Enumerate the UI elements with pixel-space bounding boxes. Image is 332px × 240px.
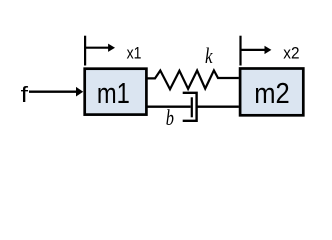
force arrow <box>29 87 83 97</box>
mass m1 <box>85 69 147 115</box>
x1 arrow <box>85 44 115 52</box>
damper piston plate <box>191 97 193 117</box>
damper rod <box>147 106 191 108</box>
damper cylinder <box>183 93 197 121</box>
svg-text:x1: x1 <box>127 45 142 63</box>
svg-text:f: f <box>21 82 29 107</box>
svg-text:m2: m2 <box>254 78 290 110</box>
mass m2 <box>240 69 303 116</box>
x2 arrow <box>241 46 272 54</box>
x1 reference line <box>84 36 86 66</box>
x2 reference line <box>239 36 241 66</box>
svg-text:x2: x2 <box>283 45 299 63</box>
svg-text:m1: m1 <box>97 78 130 110</box>
damper output line <box>197 106 239 108</box>
svg-text:k: k <box>205 43 213 68</box>
spring k <box>147 70 239 89</box>
svg-text:b: b <box>166 105 174 130</box>
